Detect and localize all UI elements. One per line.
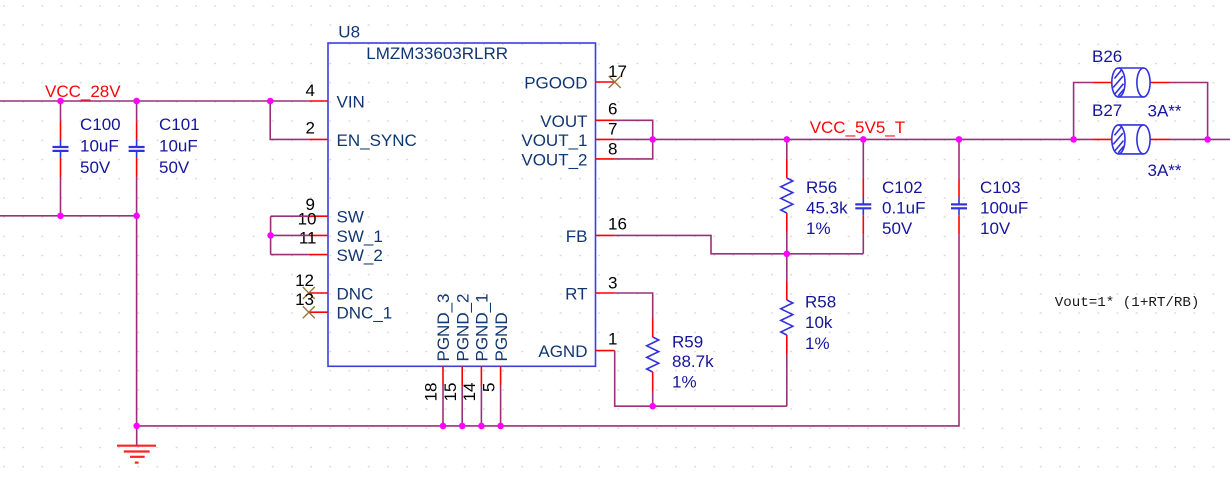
svg-text:18: 18 [422,383,441,402]
svg-text:C100: C100 [80,115,121,134]
svg-text:PGND: PGND [492,312,511,361]
wire VOUT pin6 link [615,120,653,139]
pin 7 VOUT_1 [521,119,617,150]
svg-text:C103: C103 [980,178,1021,197]
wire PGND stub 18 [442,386,444,426]
wire RT net [615,293,653,318]
svg-text:1%: 1% [806,219,831,238]
wire FB node link [787,253,864,255]
wire R58 top [786,254,788,281]
pin 17 PGOOD [524,62,627,93]
pin 15 PGND_2 [441,293,473,401]
svg-text:C101: C101 [159,115,200,134]
wire B26 branch up [1074,83,1093,140]
svg-text:R56: R56 [806,178,837,197]
svg-text:3A**: 3A** [1148,102,1182,121]
ferrite bead B26 [1092,47,1170,97]
svg-text:FB: FB [566,227,588,246]
svg-text:C102: C102 [882,178,923,197]
wire C103 bottom to ground rail [137,234,959,426]
resistor R56 [781,159,848,238]
svg-text:SW_1: SW_1 [337,227,383,246]
wire PGND stub 15 [461,386,463,426]
IC U8 LMZM33603RLRR power module body [328,23,596,367]
svg-text:VOUT_2: VOUT_2 [521,150,587,169]
pin 16 FB [566,215,627,246]
ground [117,426,156,463]
wire bottom cap rail [0,215,137,217]
pin 8 VOUT_2 [521,139,617,169]
wire C102 bottom [862,234,864,254]
svg-text:7: 7 [608,119,617,138]
svg-text:VIN: VIN [337,93,365,112]
no-connect cross pin 12 [303,287,315,299]
svg-text:LMZM33603RLRR: LMZM33603RLRR [366,44,508,63]
svg-text:50V: 50V [159,158,190,177]
wire VOUT_1 pin7 link [615,138,653,140]
wire rail after B27 [1170,138,1230,140]
svg-text:0.1uF: 0.1uF [882,199,925,218]
svg-text:10uF: 10uF [159,137,198,156]
svg-text:3A**: 3A** [1148,161,1182,180]
svg-text:1%: 1% [805,334,830,353]
resistor R59 [647,318,714,391]
pin 18 PGND_3 [422,293,454,401]
wire R58 bottom [786,354,788,406]
svg-text:PGOOD: PGOOD [524,74,587,93]
capacitor C100 [53,115,121,177]
wire VOUT_2 pin8 link [615,139,653,159]
ferrite bead B27 [1092,101,1182,180]
svg-text:PGND_2: PGND_2 [453,293,472,361]
wire C101 to ground rail [136,177,138,426]
svg-text:88.7k: 88.7k [672,352,714,371]
svg-text:VOUT_1: VOUT_1 [521,131,587,150]
svg-text:RT: RT [565,285,587,304]
capacitor C103 [951,178,1028,238]
wire SW stub link [271,215,309,217]
svg-text:45.3k: 45.3k [806,199,848,218]
pin 13 DNC_1 [295,290,392,323]
wire FB net [615,235,787,253]
resistor R58 [781,281,836,354]
wire C102 top [862,139,864,179]
wire SW tie vertical [270,216,272,254]
svg-text:10V: 10V [980,219,1011,238]
svg-text:PGND_1: PGND_1 [473,293,492,361]
svg-text:U8: U8 [338,23,360,42]
wire SW_2 stub link [271,254,309,256]
no-connect cross pin 13 [303,306,315,318]
svg-text:13: 13 [295,290,314,309]
svg-text:100uF: 100uF [980,199,1028,218]
svg-text:3: 3 [608,274,617,293]
wire SW_1 stub link [271,234,309,236]
pin 6 VOUT [540,100,617,131]
pin 11 SW_2 [299,229,383,266]
wire C100 top lead [60,101,62,121]
wire VCC_5V5_T rail [653,138,1093,140]
pin 4 VIN [306,81,365,112]
wire R59 bottom [652,391,654,406]
capacitor C101 [129,115,200,177]
svg-text:11: 11 [299,229,317,248]
svg-text:12: 12 [295,271,314,290]
svg-text:6: 6 [608,100,617,119]
svg-text:DNC_1: DNC_1 [337,304,393,323]
svg-text:DNC: DNC [337,285,374,304]
wire VCC_28V rail [0,100,309,102]
wire R56 top [786,139,788,159]
svg-text:B26: B26 [1092,47,1122,66]
no-connect cross pin 17 [609,76,621,88]
svg-text:1: 1 [608,330,617,349]
pin 9 SW [306,195,364,227]
svg-text:SW_2: SW_2 [337,246,383,265]
svg-text:50V: 50V [80,158,111,177]
wire C103 top [958,139,960,179]
svg-text:R58: R58 [805,293,836,312]
svg-text:AGND: AGND [538,342,587,361]
svg-text:8: 8 [608,139,617,158]
pin 1 AGND [538,330,617,362]
wire EN_SYNC branch [270,101,309,139]
svg-text:2: 2 [306,118,315,137]
wire PGND stub 5 [500,386,502,426]
capacitor C102 [855,178,925,238]
wire R56 bottom [786,233,788,254]
svg-text:10: 10 [298,210,317,229]
wire C101 top lead [136,101,138,121]
wire PGND stub 14 [480,386,482,426]
wire C100 bottom lead [60,177,62,216]
svg-text:1%: 1% [672,372,697,391]
svg-text:EN_SYNC: EN_SYNC [337,131,417,150]
svg-text:50V: 50V [882,219,913,238]
pin 2 EN_SYNC [306,118,417,150]
pin 10 SW_1 [298,210,383,246]
pin 5 PGND [479,312,511,392]
wire B26 branch down [1170,83,1208,140]
svg-text:R59: R59 [672,333,703,352]
wire AGND net [615,351,787,407]
svg-text:16: 16 [608,215,627,234]
pin 12 DNC [295,271,373,304]
svg-text:VCC_5V5_T: VCC_5V5_T [810,118,905,137]
svg-text:SW: SW [337,208,364,227]
pin 3 RT [565,274,617,304]
svg-text:10k: 10k [805,313,833,332]
svg-text:VCC_28V: VCC_28V [45,82,121,101]
svg-text:PGND_3: PGND_3 [434,293,453,361]
svg-text:10uF: 10uF [80,137,119,156]
svg-text:VOUT: VOUT [540,112,587,131]
svg-text:B27: B27 [1092,101,1122,120]
pin 14 PGND_1 [460,293,492,401]
svg-text:Vout=1* (1+RT/RB): Vout=1* (1+RT/RB) [1055,295,1200,311]
svg-text:4: 4 [306,81,315,100]
